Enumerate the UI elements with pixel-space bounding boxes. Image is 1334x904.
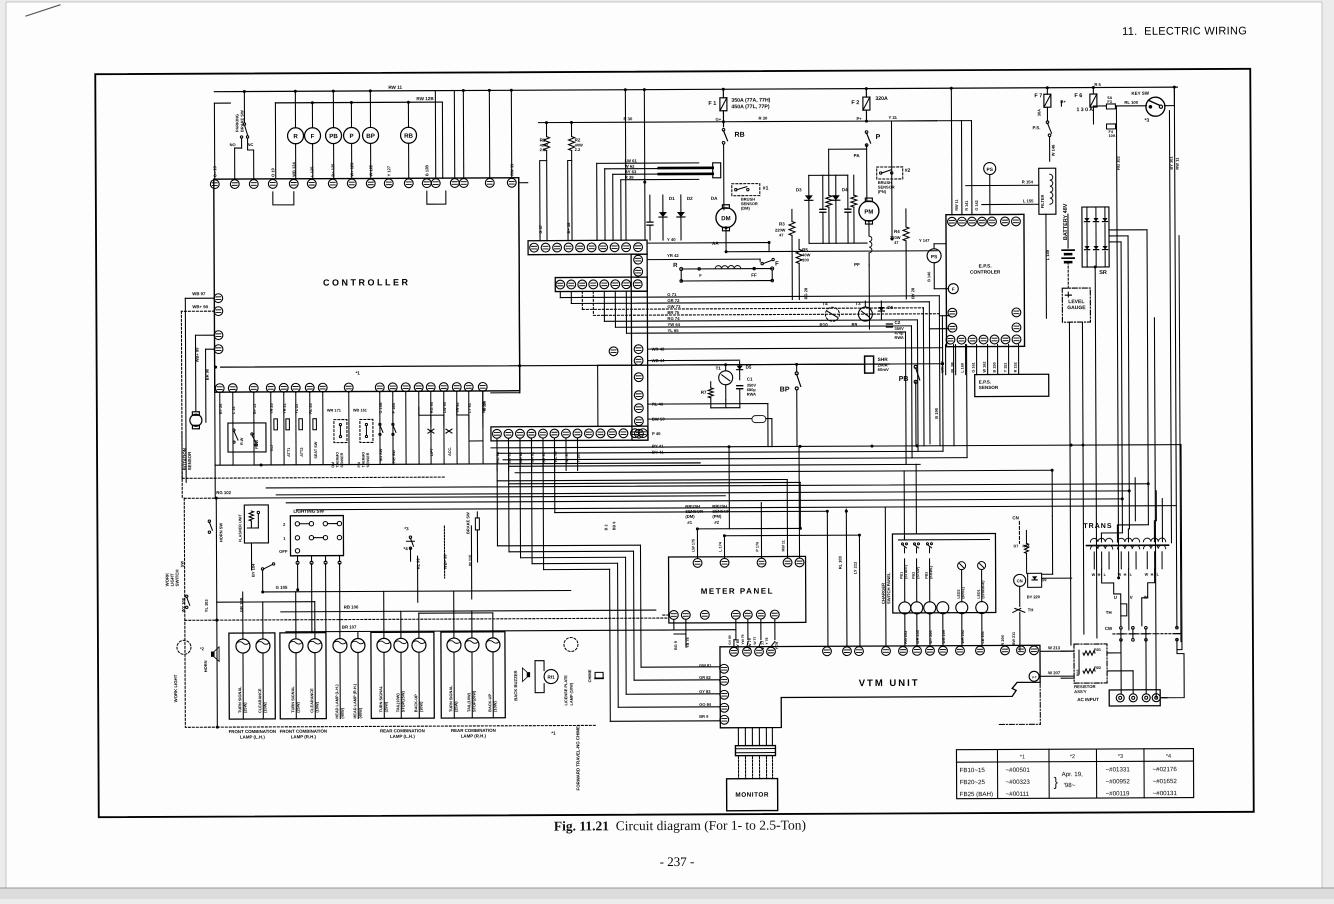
svg-text:B 2: B 2: [604, 524, 608, 530]
svg-text:LY 212: LY 212: [853, 561, 858, 574]
svg-text:G 37: G 37: [538, 224, 543, 233]
svg-text:SENSOR: SENSOR: [979, 385, 999, 390]
EPS top feed wires: [950, 88, 953, 214]
wire B+ drop: [1060, 101, 1062, 106]
svg-text:RW 12B: RW 12B: [416, 96, 434, 101]
SR bottom wire: [1095, 267, 1097, 638]
svg-text:~#00119: ~#00119: [1106, 790, 1130, 797]
left connector F: [948, 284, 958, 294]
svg-text:KEY SW: KEY SW: [1131, 91, 1149, 96]
svg-text:SENSER: SENSER: [340, 452, 344, 467]
field coil R-F: [681, 268, 772, 270]
svg-text:RWA: RWA: [894, 335, 903, 340]
controller band right column connectors: [631, 291, 648, 440]
svg-text:G 142: G 142: [975, 200, 979, 210]
svg-text:PB: PB: [899, 376, 909, 383]
work light dashed circle: [177, 640, 191, 654]
wires key switch: [1093, 105, 1106, 107]
svg-text:350A (77A, 77H): 350A (77A, 77H): [731, 98, 770, 104]
svg-text:BP: BP: [366, 133, 375, 140]
svg-text:TH: TH: [1106, 610, 1112, 615]
svg-text:WR 171: WR 171: [327, 408, 342, 413]
svg-text:W: W: [1118, 573, 1122, 577]
svg-text:'98~: '98~: [1064, 782, 1076, 789]
svg-text:P 49: P 49: [652, 431, 661, 436]
brush sensor DM #1 dashed box: [732, 184, 760, 196]
svg-text:CHIME: CHIME: [587, 669, 592, 682]
EPS controller box: [946, 214, 1025, 346]
svg-text:PS: PS: [931, 254, 938, 260]
controller band row 2 connectors: [555, 277, 647, 291]
wires resistor assy: [1061, 650, 1074, 652]
wires from 1-28 1-34 columns up: [434, 91, 436, 179]
capacitor C near D1: [649, 195, 651, 222]
wires meter panel down to VTM: [735, 620, 737, 640]
verticals to meter panel top: [760, 503, 762, 558]
svg-text:WB 161: WB 161: [353, 407, 368, 412]
svg-text:PB2: PB2: [912, 572, 916, 579]
svg-text:B+ 125: B+ 125: [330, 163, 335, 177]
svg-text:Y 151: Y 151: [1004, 363, 1008, 373]
svg-text:D2: D2: [687, 196, 693, 201]
svg-text:R9: R9: [851, 322, 857, 327]
transformer secondary coils: [1090, 545, 1112, 549]
rotation sensor motor M1: [190, 414, 202, 426]
controller left connectors 1-20 1-22: [214, 294, 223, 316]
svg-text:RW 11: RW 11: [955, 199, 959, 210]
coil under PM: [868, 221, 870, 236]
svg-text:CHARGER: CHARGER: [881, 583, 886, 604]
trans contactor switches: [1120, 627, 1123, 630]
svg-text:1 3 0 A: 1 3 0 A: [1076, 107, 1093, 113]
lighting switch box: [290, 516, 343, 556]
brush sensor PM #2 dashed box: [877, 167, 903, 179]
svg-text:P 176: P 176: [755, 542, 759, 552]
svg-text:L 149: L 149: [1045, 249, 1050, 260]
monitor connector bar: [735, 746, 775, 756]
wires parking brake to connectors: [234, 148, 236, 179]
svg-text:BP: BP: [780, 386, 790, 393]
filter box: [1039, 168, 1056, 214]
wire bundle lower verticals right: [953, 345, 955, 446]
svg-text:FF: FF: [751, 273, 757, 278]
svg-text:U: U: [1114, 595, 1117, 600]
bus Y 31: [891, 120, 936, 122]
diode D5: [739, 362, 741, 366]
svg-text:METER PANEL: METER PANEL: [701, 587, 774, 596]
RW switch box: [228, 423, 266, 452]
svg-text:FLASHER UNIT: FLASHER UNIT: [238, 514, 242, 543]
controller left wires WB 97 WB+ 98: [185, 297, 214, 299]
svg-text:FB20~25: FB20~25: [960, 779, 986, 786]
circle under PB3 extra: [937, 602, 949, 614]
wires from SR to right bundle: [1109, 229, 1147, 231]
wire row 512 to Y1: [555, 511, 827, 512]
svg-text:~#00501: ~#00501: [1006, 767, 1031, 774]
svg-text:RWA: RWA: [747, 392, 756, 397]
svg-text:V: V: [1130, 595, 1133, 600]
VTM unit box: [720, 645, 1040, 728]
flasher unit box: [244, 505, 268, 543]
U V W stair wires: [1102, 569, 1121, 626]
svg-text:SG SW: SG SW: [379, 448, 383, 461]
contactor right: [1176, 626, 1179, 629]
horn speaker: [211, 647, 219, 661]
svg-text:G 105: G 105: [276, 585, 288, 590]
svg-text:R 39: R 39: [625, 175, 635, 180]
controller top connector row 1-24..1-27: [210, 178, 516, 188]
junction dots: [728, 445, 731, 448]
svg-text:WR 202: WR 202: [961, 630, 965, 644]
vertical wires RG 102 BY 101 RW 11: [1116, 106, 1118, 578]
AC input wires: [1120, 640, 1122, 694]
svg-text:HORN: HORN: [203, 660, 208, 672]
long vertical wires right side: [1154, 318, 1156, 698]
charger panel buttons: [899, 602, 911, 614]
svg-text:WB+ 99: WB+ 99: [195, 347, 200, 362]
EPS top connector row: [948, 217, 1021, 226]
svg-text:V-7: V-7: [1032, 675, 1037, 679]
svg-text:SENSER: SENSER: [366, 452, 370, 467]
motor DM: [716, 208, 736, 228]
wires brush sensor to meter panel: [696, 529, 698, 558]
svg-text:ASS'Y: ASS'Y: [1074, 689, 1087, 694]
wire controller left down to bottom bus: [214, 392, 216, 465]
svg-text:LAMP (R.H.): LAMP (R.H.): [461, 733, 487, 738]
svg-text:CN: CN: [1017, 578, 1023, 583]
svg-text:YB 78: YB 78: [686, 637, 690, 648]
resistor assy box: [1074, 644, 1107, 683]
wire WR 43 to right: [648, 348, 943, 349]
svg-text:SR: SR: [1099, 270, 1107, 276]
PS circle left: [927, 249, 941, 263]
svg-text:GY 80: GY 80: [728, 635, 732, 645]
key switch: [1146, 97, 1165, 116]
wires lighting switch down: [297, 564, 299, 590]
wire DA to DM: [723, 145, 725, 210]
relay Rf1: [544, 670, 558, 684]
svg-text:OFF: OFF: [279, 549, 288, 554]
svg-text:THERMO: THERMO: [362, 452, 366, 468]
svg-text:RL 100: RL 100: [1124, 100, 1138, 105]
svg-text:BY 63: BY 63: [625, 169, 637, 174]
svg-text:R 152: R 152: [1014, 362, 1018, 372]
svg-text:H: H: [1124, 573, 1127, 577]
svg-text:BY 28: BY 28: [910, 287, 915, 299]
DM thermo sensor dashed box: [334, 420, 347, 443]
svg-text:WB 124: WB 124: [291, 162, 296, 177]
svg-text:W 207: W 207: [1048, 670, 1061, 675]
svg-text:SEAT SW: SEAT SW: [314, 441, 318, 458]
svg-text:AA: AA: [712, 241, 719, 246]
svg-text:B 12B: B 12B: [424, 165, 429, 176]
svg-text:T4: T4: [822, 301, 828, 306]
controller bottom band row connectors: [491, 426, 648, 441]
charger panel bottom labels: [904, 614, 906, 646]
svg-text:RG 28: RG 28: [803, 287, 808, 299]
svg-text:D5: D5: [746, 365, 752, 370]
charger panel LEDs: [956, 602, 968, 614]
lamp bus lines: [214, 465, 216, 498]
svg-text:Y 31: Y 31: [888, 115, 897, 120]
capacitor after D4: [847, 175, 849, 209]
meter panel box: [669, 556, 806, 623]
transformer primary coils: [1090, 538, 1112, 542]
svg-text:WY 206: WY 206: [929, 630, 933, 643]
svg-text:LIFT: LIFT: [430, 447, 434, 456]
head lamp RH: [351, 638, 365, 652]
svg-text:~#00952: ~#00952: [1106, 778, 1131, 785]
wire row 480 to meter RW11: [497, 479, 787, 480]
front combination lamp RH box: [280, 633, 326, 719]
svg-text:DA: DA: [711, 196, 718, 201]
bundle wide verticals right: [1147, 482, 1150, 485]
VTM V-7 connector: [1029, 671, 1039, 681]
svg-text:PB1: PB1: [900, 572, 904, 579]
controller box: [214, 178, 520, 392]
svg-text:RW 11: RW 11: [388, 85, 402, 90]
svg-text:FRONT COMBINATION: FRONT COMBINATION: [229, 729, 277, 734]
svg-text:GY 83: GY 83: [699, 689, 711, 694]
svg-text:*4: *4: [403, 546, 408, 551]
svg-text:B 146: B 146: [927, 272, 931, 282]
svg-text:LB 201: LB 201: [981, 631, 985, 643]
diode D2: [680, 195, 682, 212]
svg-text:~#01331: ~#01331: [1106, 766, 1131, 773]
svg-text:}: }: [1054, 774, 1059, 789]
svg-text:F: F: [775, 262, 779, 268]
page corner scan mark: [26, 5, 60, 16]
svg-text:WY 108: WY 108: [181, 597, 186, 612]
connector CN circle: [1014, 574, 1026, 586]
svg-text:450A (77L, 77P): 450A (77L, 77P): [731, 104, 769, 110]
lamp feed verticals: [242, 592, 244, 639]
svg-text:BRAKE SW: BRAKE SW: [465, 512, 470, 534]
transformer secondary taps: [1093, 552, 1095, 569]
fuse F3 5A: [1106, 104, 1115, 109]
svg-text:R3: R3: [779, 221, 785, 226]
svg-text:R02: R02: [1094, 666, 1101, 670]
AC input connector: [1109, 690, 1160, 706]
controller left connectors 1-19 5-1: [214, 331, 223, 354]
svg-text:HEAD LAMP (R.H.): HEAD LAMP (R.H.): [352, 683, 357, 718]
lamp bus 612 partial: [419, 612, 493, 614]
wire SHR bus: [598, 364, 865, 365]
frame border: [95, 69, 1253, 817]
svg-text:LAMP (R.H.): LAMP (R.H.): [291, 734, 317, 739]
wire bundle wide rows: [266, 484, 1148, 488]
svg-text:YL 103: YL 103: [204, 599, 209, 613]
bus lines LW 61 W 62 BY 63 R 39: [596, 163, 598, 240]
svg-text:RL 100: RL 100: [838, 555, 843, 569]
head lamp LH: [333, 639, 347, 653]
resistor near D4: [853, 175, 855, 195]
wire bus RW 12B: [275, 101, 442, 104]
svg-text:SWITCH: SWITCH: [175, 569, 180, 586]
svg-text:G 71: G 71: [667, 292, 677, 297]
svg-text:(CHARGE): (CHARGE): [981, 580, 985, 599]
resistor near D3: [828, 175, 830, 195]
svg-text:T3: T3: [855, 301, 861, 306]
svg-text:LW 61: LW 61: [625, 158, 638, 163]
wires from pilot lamps up to bus: [294, 91, 296, 127]
wire B+ 38: [568, 160, 572, 240]
svg-text:BG 9: BG 9: [674, 641, 678, 650]
svg-text:Y 147: Y 147: [919, 238, 930, 243]
svg-text:D9: D9: [1042, 578, 1047, 582]
svg-text:B 110: B 110: [483, 401, 487, 411]
fuse F2: [863, 97, 870, 110]
svg-text:L 155: L 155: [1023, 198, 1034, 203]
svg-text:W+ 123: W+ 123: [349, 162, 354, 177]
svg-text:PB3: PB3: [925, 572, 929, 579]
svg-text:F: F: [952, 287, 955, 292]
svg-text:LED1: LED1: [977, 589, 981, 598]
svg-text:PS: PS: [986, 167, 993, 173]
svg-text:#1: #1: [763, 186, 769, 192]
svg-text:~#00111: ~#00111: [1006, 791, 1030, 798]
svg-text:E.P.S.: E.P.S.: [979, 264, 992, 270]
motor PM: [859, 201, 879, 221]
svg-text:R01: R01: [1094, 648, 1101, 652]
svg-text:F 7: F 7: [1034, 93, 1042, 99]
wires bottom row verticals: [219, 393, 221, 465]
svg-text:F 2: F 2: [851, 100, 859, 106]
svg-text:RW 11: RW 11: [1175, 157, 1180, 170]
meter panel top connectors: [693, 558, 804, 567]
diode D4: [835, 175, 837, 195]
armature commutator bars: [659, 167, 713, 170]
label L 149: [1045, 214, 1047, 318]
wire W 148 down to filter: [1049, 137, 1051, 161]
controller band row 2-4x..2-3x: [528, 240, 647, 255]
wire AA below DM: [725, 228, 727, 252]
fan from rowD to lower bundles: [553, 441, 555, 513]
svg-text:GR 72: GR 72: [667, 298, 680, 303]
svg-text:SENSOR: SENSOR: [187, 451, 192, 470]
svg-text:RB 106: RB 106: [344, 604, 359, 609]
EPS bottom side connectors: [948, 308, 957, 332]
BP switch wires: [796, 364, 798, 371]
transistor T1: [719, 371, 733, 385]
loop wire under connectors 2-16 2-3: [273, 192, 294, 205]
resistor R3 220W 47: [791, 209, 793, 221]
svg-text:BY 220: BY 220: [1027, 594, 1041, 599]
wire PA to PM: [866, 145, 868, 201]
svg-text:WB 97: WB 97: [192, 291, 206, 296]
svg-text:CONTROLLER: CONTROLLER: [323, 277, 411, 287]
svg-text:F 1: F 1: [708, 101, 716, 107]
svg-text:YR 42: YR 42: [667, 253, 679, 258]
rear combination lamp LH box: [371, 632, 434, 718]
svg-text:BR 75: BR 75: [667, 310, 680, 315]
svg-text:BR 107: BR 107: [342, 625, 357, 630]
svg-text:30A: 30A: [1036, 109, 1041, 116]
svg-text:10A: 10A: [1109, 134, 1116, 138]
table revision: [956, 749, 1193, 799]
svg-text:WB 209: WB 209: [942, 630, 946, 644]
svg-text:CW: CW: [1105, 626, 1113, 631]
wire G 37: [540, 161, 547, 241]
svg-text:CONTROLER: CONTROLER: [970, 269, 1001, 275]
capacitor C1: [737, 385, 743, 387]
svg-text:WORK LIGHT: WORK LIGHT: [173, 674, 178, 702]
shunt SHR: [865, 356, 874, 373]
svg-text:YW 64: YW 64: [667, 322, 680, 327]
fuse F4 10A: [1107, 124, 1116, 129]
controller bottom connector row 1-15..1-25: [215, 382, 487, 392]
svg-text:R 154: R 154: [1022, 179, 1034, 184]
license plate lamp: [564, 637, 578, 651]
svg-text:DM: DM: [721, 216, 730, 222]
svg-text:Fig. 11.21 Circuit diagram (F: Fig. 11.21 Circuit diagram (For 1- to 2.…: [554, 817, 806, 833]
svg-text:P+: P+: [856, 116, 862, 121]
svg-text:R 5: R 5: [1094, 82, 1101, 87]
svg-text:320A: 320A: [875, 96, 888, 102]
svg-text:TH: TH: [1028, 607, 1034, 612]
svg-text:L 160: L 160: [961, 363, 965, 373]
svg-text:W 122: W 122: [368, 164, 373, 176]
label R 154: [966, 184, 1039, 186]
svg-text:VTM UNIT: VTM UNIT: [859, 678, 920, 689]
svg-text:G 161: G 161: [972, 362, 976, 372]
svg-text:C1: C1: [747, 377, 753, 382]
T1 collector wire: [725, 365, 727, 371]
SG SW switch: [379, 423, 381, 425]
svg-text:REAR COMBINATION: REAR COMBINATION: [380, 728, 425, 733]
rear combination lamp RH box: [441, 632, 505, 718]
svg-text:Y 78: Y 78: [775, 642, 779, 650]
junction wires below band D: [496, 439, 498, 448]
wires rowD down fan: [496, 448, 498, 471]
svg-text:R: R: [673, 263, 678, 269]
svg-text:R 204: R 204: [1001, 634, 1005, 645]
PE SW switch: [392, 423, 394, 425]
EPS sensor box: [975, 374, 1049, 396]
svg-text:B+ 38: B+ 38: [566, 222, 571, 234]
svg-text:*2: *2: [1070, 754, 1075, 760]
LIFT switch: [430, 415, 432, 426]
svg-text:R 30: R 30: [623, 116, 633, 121]
svg-text:Y 78: Y 78: [765, 638, 769, 645]
wires from left connectors 1-19 5-1 down: [195, 334, 214, 336]
lighting switch grid: [295, 522, 299, 526]
svg-text:L 174: L 174: [718, 541, 722, 552]
label B 190: [941, 316, 944, 451]
bus YR 42: [647, 258, 760, 261]
meter panel bottom connectors: [669, 610, 779, 619]
switch *3: [409, 536, 411, 538]
transformer primary feed wires: [1100, 533, 1102, 542]
svg-text:BACK BUZZER: BACK BUZZER: [513, 670, 518, 700]
svg-text:RB: RB: [735, 132, 745, 139]
charger switch panel box: [892, 533, 995, 612]
svg-text:W 77: W 77: [753, 637, 757, 645]
resistor R1 40W 2.2: [545, 123, 547, 137]
svg-text:HORN SW: HORN SW: [218, 523, 223, 543]
wire from contactor right down: [1160, 640, 1184, 698]
svg-text:PF: PF: [854, 262, 860, 267]
svg-text:P.S.: P.S.: [1033, 125, 1041, 130]
svg-text:PB: PB: [329, 133, 338, 140]
svg-text:*1: *1: [1020, 754, 1025, 760]
svg-text:F: F: [311, 133, 315, 140]
svg-text:TRANS: TRANS: [1083, 523, 1112, 530]
svg-text:THERMO: THERMO: [336, 452, 340, 468]
transistor T4 dashed: [825, 307, 839, 321]
svg-text:GO 84: GO 84: [699, 702, 712, 707]
svg-text:ACC.: ACC.: [448, 447, 452, 456]
